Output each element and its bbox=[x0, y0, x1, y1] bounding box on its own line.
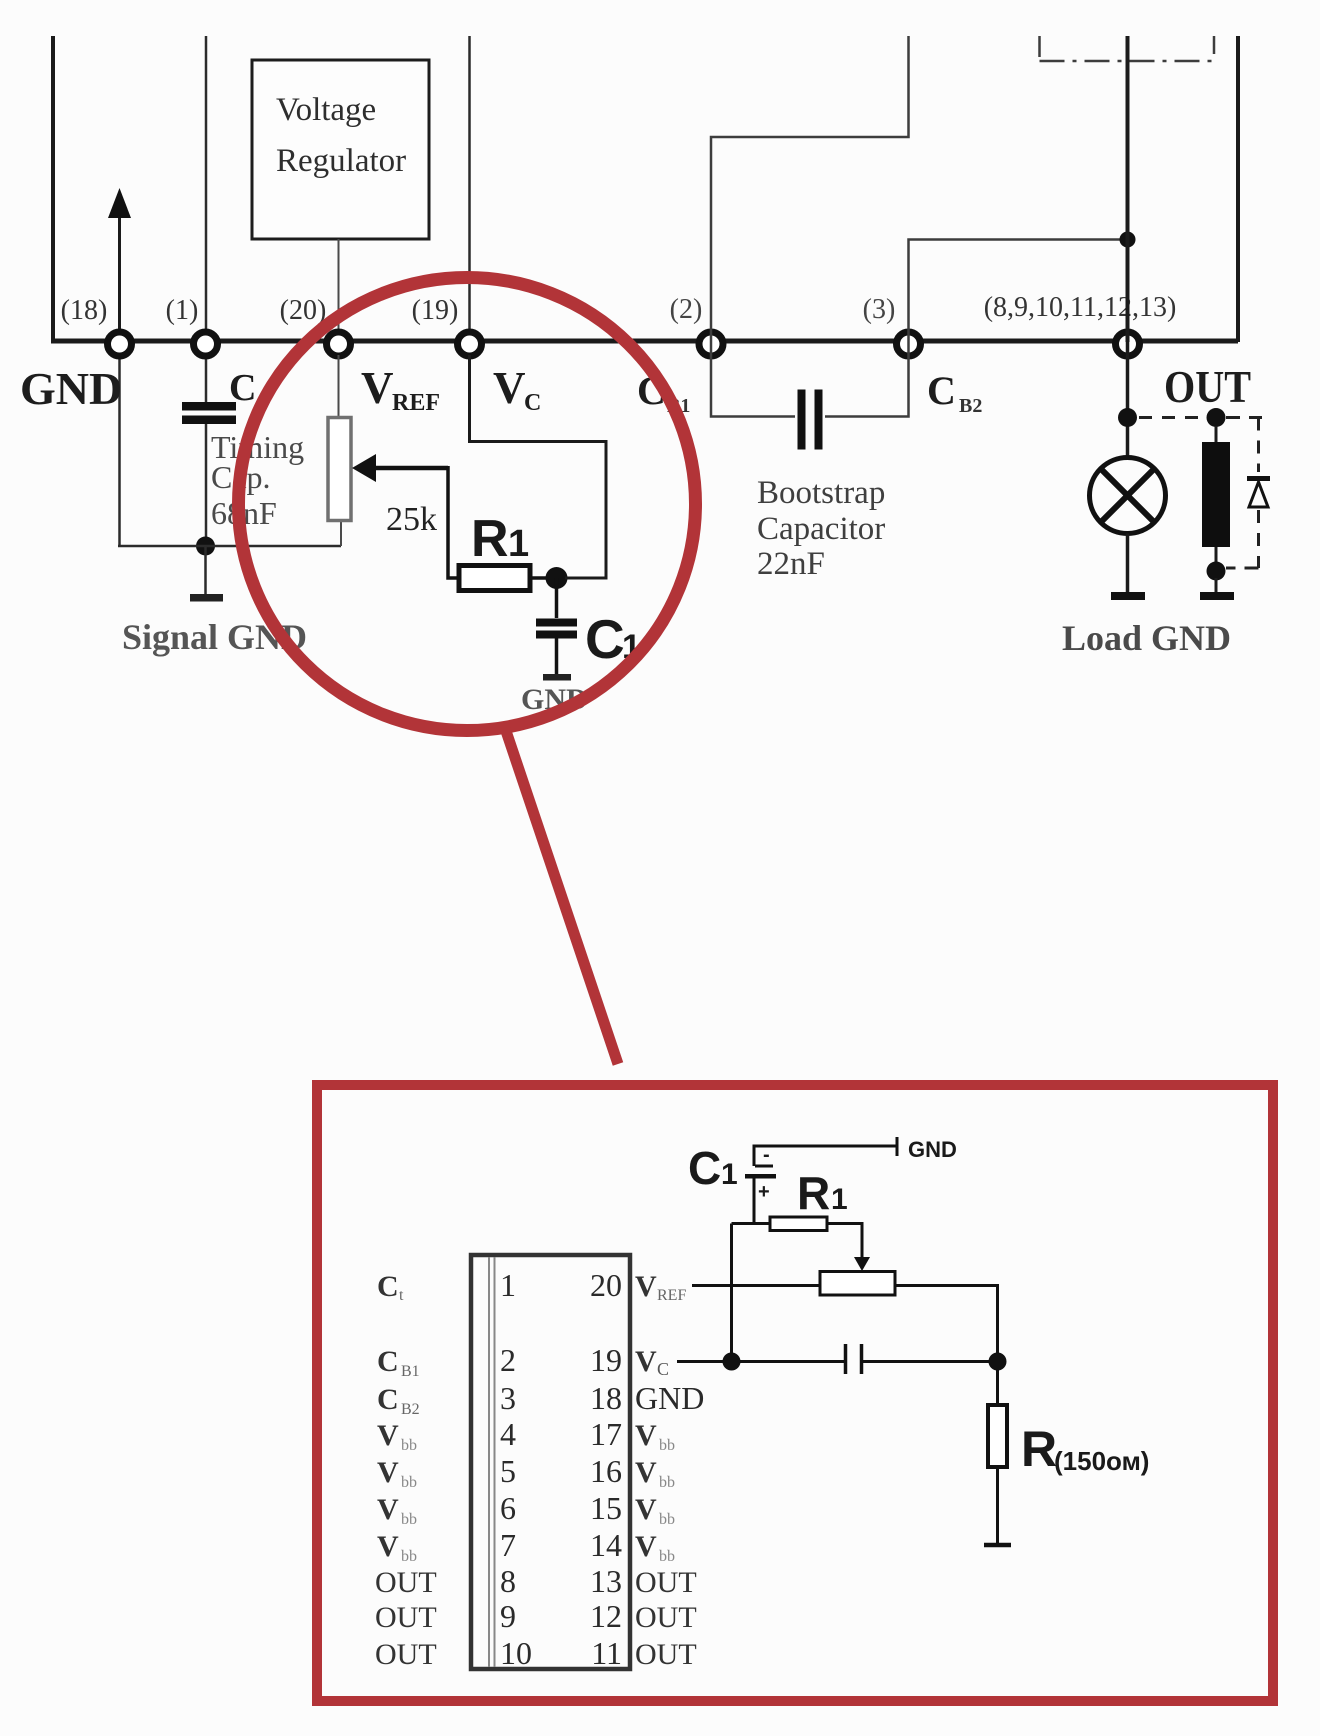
left pin name Vbb pin5 bbox=[377, 1456, 417, 1491]
capacitor Ct plates bbox=[182, 402, 236, 424]
svg-text:1: 1 bbox=[508, 523, 529, 565]
svg-text:V: V bbox=[635, 1530, 657, 1563]
junction dot load bottom bbox=[1207, 562, 1226, 581]
svg-text:12: 12 bbox=[590, 1598, 622, 1634]
svg-text:Voltage: Voltage bbox=[276, 92, 376, 128]
svg-text:V: V bbox=[635, 1456, 657, 1489]
svg-text:V: V bbox=[377, 1419, 399, 1452]
wire out pins vertical bbox=[1126, 36, 1130, 342]
wire node20 to potentiometer bbox=[338, 355, 340, 418]
svg-text:(18): (18) bbox=[61, 295, 108, 326]
right pin name Vbb pin17 bbox=[635, 1419, 675, 1454]
svg-text:10: 10 bbox=[500, 1635, 532, 1671]
svg-text:(150ом): (150ом) bbox=[1054, 1446, 1149, 1476]
capacitor C1 bbox=[536, 578, 577, 674]
bootstrap capacitor plates bbox=[798, 390, 823, 450]
svg-text:OUT: OUT bbox=[635, 1638, 697, 1671]
svg-text:16: 16 bbox=[590, 1453, 622, 1489]
svg-text:13: 13 bbox=[590, 1563, 622, 1599]
wire signal rail bbox=[118, 545, 341, 548]
node terminal 3 bbox=[897, 332, 921, 356]
svg-text:OUT: OUT bbox=[375, 1638, 437, 1671]
svg-text:9: 9 bbox=[500, 1598, 516, 1634]
zener diode D1 dashed branch bbox=[1226, 418, 1270, 569]
left pin name Ct bbox=[377, 1270, 404, 1304]
load resistor black bar bbox=[1202, 426, 1230, 564]
voltage regulator box U1 bbox=[252, 60, 429, 239]
svg-text:REF: REF bbox=[392, 390, 440, 416]
svg-text:14: 14 bbox=[590, 1527, 622, 1563]
svg-text:V: V bbox=[635, 1493, 657, 1526]
label Timing Cap. 68nF bbox=[211, 429, 304, 531]
wire R1 rail left bbox=[732, 1222, 772, 1225]
svg-text:7: 7 bbox=[500, 1527, 516, 1563]
wire R1 to node bbox=[530, 576, 556, 580]
junction dot out lamp bbox=[1118, 408, 1137, 427]
svg-text:Capacitor: Capacitor bbox=[757, 511, 885, 547]
svg-text:(3): (3) bbox=[863, 294, 896, 325]
svg-text:(8,9,10,11,12,13): (8,9,10,11,12,13) bbox=[984, 292, 1177, 323]
svg-text:11: 11 bbox=[591, 1635, 622, 1671]
ground load GND left bbox=[1111, 592, 1145, 600]
svg-text:1: 1 bbox=[831, 1183, 848, 1216]
svg-text:V: V bbox=[635, 1419, 657, 1452]
potentiometer box body bbox=[820, 1272, 895, 1296]
wire lamp to ground bbox=[1126, 534, 1130, 593]
label R 150om bbox=[1021, 1421, 1149, 1477]
svg-text:4: 4 bbox=[500, 1416, 516, 1452]
magnifier red circle bbox=[239, 278, 696, 731]
ground signal GND bbox=[190, 546, 223, 602]
potentiometer 25k body bbox=[328, 418, 351, 521]
pin numbers left 1-10 bbox=[500, 1267, 532, 1671]
svg-text:Load GND: Load GND bbox=[1062, 618, 1231, 658]
svg-text:8: 8 bbox=[500, 1563, 516, 1599]
wire GND node to signal rail bbox=[118, 343, 121, 546]
left pin name CB2 bbox=[377, 1383, 420, 1418]
wire C1 to GND tick bbox=[754, 1137, 897, 1166]
svg-text:C: C bbox=[657, 1359, 669, 1379]
right pin name VREF bbox=[635, 1270, 686, 1304]
svg-text:bb: bb bbox=[401, 1548, 417, 1565]
lamp bbox=[1090, 458, 1166, 534]
svg-text:C: C bbox=[377, 1345, 399, 1378]
arrow up from GND node bbox=[108, 188, 131, 343]
node terminal 20 bbox=[327, 332, 351, 356]
svg-text:6: 6 bbox=[500, 1490, 516, 1526]
capacitor VC series bbox=[846, 1344, 862, 1374]
svg-text:C: C bbox=[524, 390, 541, 416]
node terminal 2 bbox=[699, 332, 723, 356]
junction dot R1 C1 VC bbox=[546, 567, 568, 589]
magnifier handle line bbox=[505, 728, 618, 1064]
svg-text:19: 19 bbox=[590, 1342, 622, 1378]
node terminal 19 bbox=[458, 332, 482, 356]
svg-text:18: 18 bbox=[590, 1380, 622, 1416]
wire pot bottom to rail bbox=[340, 520, 342, 546]
wire pin19 vertical bbox=[468, 36, 471, 342]
svg-text:(20): (20) bbox=[280, 295, 327, 326]
svg-text:V: V bbox=[635, 1270, 657, 1303]
svg-text:V: V bbox=[377, 1456, 399, 1489]
label R1 bbox=[471, 510, 529, 568]
svg-text:(2): (2) bbox=[670, 294, 703, 325]
wire pin3 riser bbox=[909, 240, 1128, 343]
svg-text:20: 20 bbox=[590, 1267, 622, 1303]
wire main supply bus bbox=[51, 339, 1238, 344]
IC inner notch lines bbox=[489, 1257, 495, 1667]
pin numbers right 20-11 bbox=[590, 1267, 622, 1671]
node terminal 18 bbox=[108, 332, 132, 356]
svg-text:bb: bb bbox=[659, 1437, 675, 1454]
right pin name VC bbox=[635, 1345, 669, 1379]
svg-text:GND: GND bbox=[635, 1380, 704, 1416]
wire VC left bbox=[677, 1360, 844, 1363]
svg-text:C: C bbox=[377, 1383, 399, 1416]
svg-text:OUT: OUT bbox=[375, 1566, 437, 1599]
svg-text:V: V bbox=[377, 1530, 399, 1563]
wire pin2 riser bbox=[711, 36, 909, 342]
svg-text:C: C bbox=[585, 608, 625, 670]
wire VREF to pot bbox=[692, 1284, 820, 1287]
svg-text:(1): (1) bbox=[166, 295, 199, 326]
svg-text:REF: REF bbox=[657, 1287, 686, 1304]
svg-text:B1: B1 bbox=[401, 1363, 420, 1380]
svg-text:1: 1 bbox=[500, 1267, 516, 1303]
wire wiper to R1 bbox=[448, 466, 460, 578]
wire R1 to pot wiper bbox=[827, 1224, 870, 1272]
wire C1 bottom to R1 rail bbox=[753, 1178, 756, 1224]
svg-text:OUT: OUT bbox=[375, 1601, 437, 1634]
magnified view red box bbox=[317, 1085, 1273, 1701]
svg-text:OUT: OUT bbox=[635, 1566, 697, 1599]
wire VC right bbox=[863, 1360, 998, 1363]
label R1 box bbox=[797, 1167, 848, 1219]
label VREF bbox=[361, 363, 440, 416]
svg-text:GND: GND bbox=[20, 363, 122, 414]
label VC bbox=[493, 363, 541, 416]
svg-text:5: 5 bbox=[500, 1453, 516, 1489]
svg-text:B2: B2 bbox=[959, 395, 982, 417]
wire VC net bbox=[470, 355, 607, 578]
svg-text:Bootstrap: Bootstrap bbox=[757, 475, 885, 511]
left pin name Vbb pin4 bbox=[377, 1419, 417, 1454]
svg-text:GND: GND bbox=[908, 1137, 957, 1162]
left pin name Vbb pin7 bbox=[377, 1530, 417, 1565]
wire left vertical bus end bbox=[51, 36, 55, 343]
svg-text:R: R bbox=[1021, 1421, 1057, 1477]
resistor R1 body bbox=[459, 566, 530, 591]
wire Ct to rail bbox=[205, 424, 208, 546]
svg-text:1: 1 bbox=[721, 1158, 738, 1191]
svg-text:22nF: 22nF bbox=[757, 546, 825, 582]
node terminal 8-13 bbox=[1116, 332, 1140, 356]
wire pin1 vertical bbox=[205, 36, 208, 404]
dashed wire zener top right bbox=[1226, 416, 1262, 419]
svg-text:V: V bbox=[635, 1345, 657, 1378]
dash-dot chip outline fragment bbox=[1040, 36, 1215, 61]
IC body DIP20 bbox=[471, 1255, 630, 1669]
wire C1 branch down to VC bbox=[730, 1224, 733, 1362]
svg-text:V: V bbox=[361, 363, 394, 413]
svg-text:R: R bbox=[797, 1167, 830, 1219]
resistor R1 box body bbox=[770, 1217, 827, 1231]
label C1 box bbox=[688, 1142, 738, 1194]
right pin name Vbb pin16 bbox=[635, 1456, 675, 1491]
svg-text:C: C bbox=[377, 1270, 399, 1303]
wire regulator to pin20 bbox=[338, 239, 340, 342]
label Bootstrap Capacitor 22nF bbox=[757, 475, 885, 582]
left pin name Vbb pin6 bbox=[377, 1493, 417, 1528]
ground C1 GND bbox=[543, 674, 571, 681]
svg-text:V: V bbox=[377, 1493, 399, 1526]
svg-text:15: 15 bbox=[590, 1490, 622, 1526]
wire right edge vertical bbox=[1236, 36, 1240, 342]
svg-text:OUT: OUT bbox=[1164, 362, 1251, 412]
right pin name Vbb pin14 bbox=[635, 1530, 675, 1565]
svg-text:17: 17 bbox=[590, 1416, 622, 1452]
capacitor C1 box polarized bbox=[745, 1144, 776, 1203]
svg-text:bb: bb bbox=[659, 1548, 675, 1565]
capacitor Ct label bbox=[229, 367, 263, 414]
wire load bottom to ground bbox=[1215, 578, 1218, 592]
potentiometer wiper arrow bbox=[352, 454, 448, 482]
node terminal 1 bbox=[194, 332, 218, 356]
svg-text:R: R bbox=[471, 510, 509, 568]
svg-text:3: 3 bbox=[500, 1380, 516, 1416]
svg-text:bb: bb bbox=[659, 1474, 675, 1491]
junction dot riser to out line bbox=[1120, 232, 1136, 248]
svg-text:bb: bb bbox=[401, 1437, 417, 1454]
junction dot VC right bbox=[989, 1353, 1007, 1371]
svg-text:25k: 25k bbox=[386, 501, 437, 538]
label C1 bbox=[585, 608, 641, 670]
svg-text:OUT: OUT bbox=[635, 1601, 697, 1634]
svg-text:C: C bbox=[688, 1142, 721, 1194]
wire out node to lamp bbox=[1126, 342, 1130, 458]
label CB1 bbox=[637, 368, 690, 417]
label CB2 bbox=[927, 368, 982, 417]
svg-text:bb: bb bbox=[401, 1474, 417, 1491]
junction dot signal rail bbox=[196, 537, 215, 556]
svg-text:2: 2 bbox=[500, 1342, 516, 1378]
bootstrap capacitor CB1 loop bbox=[711, 342, 909, 417]
wire pot to right branch bbox=[895, 1286, 998, 1355]
dashed wire out to zener branch bbox=[1139, 416, 1207, 419]
svg-text:bb: bb bbox=[659, 1511, 675, 1528]
junction dot VC left bbox=[723, 1353, 741, 1371]
resistor R 150 body bbox=[984, 1362, 1011, 1546]
junction dot zener top bbox=[1207, 408, 1226, 427]
svg-text:+: + bbox=[758, 1181, 770, 1203]
ground load GND right bbox=[1200, 592, 1234, 600]
svg-text:B2: B2 bbox=[401, 1401, 420, 1418]
left pin name CB1 bbox=[377, 1345, 420, 1380]
svg-text:(19): (19) bbox=[412, 295, 459, 326]
svg-text:Regulator: Regulator bbox=[276, 143, 406, 179]
svg-text:V: V bbox=[493, 363, 526, 413]
svg-text:t: t bbox=[399, 1287, 404, 1304]
right pin name Vbb pin15 bbox=[635, 1493, 675, 1528]
svg-text:C: C bbox=[927, 368, 956, 413]
svg-text:bb: bb bbox=[401, 1511, 417, 1528]
